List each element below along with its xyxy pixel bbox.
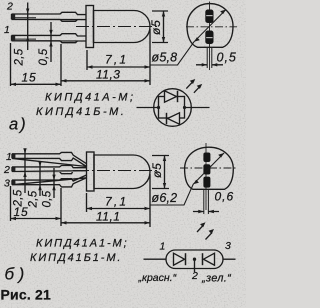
svg-text:ø5,8: ø5,8 bbox=[152, 51, 178, 65]
svg-text:0,5: 0,5 bbox=[38, 48, 50, 65]
diode D1 red (schematic b) bbox=[174, 253, 185, 265]
dimension 2,5 first vertical (b) bbox=[24, 149, 26, 193]
node left (schematic a) bbox=[157, 106, 160, 109]
svg-text:КИПД41Б-М.: КИПД41Б-М. bbox=[36, 106, 126, 118]
svg-text:15: 15 bbox=[22, 71, 37, 85]
svg-text:0,5: 0,5 bbox=[217, 51, 237, 65]
horizontal centerline (front view a) bbox=[186, 26, 237, 28]
svg-text:3: 3 bbox=[225, 240, 231, 252]
emission arrow 1 (schematic b) bbox=[197, 225, 204, 232]
diameter 6,2 leader line (b) bbox=[151, 153, 225, 205]
left lead wire (schematic b) bbox=[144, 258, 167, 260]
vertical centerline (front view b) bbox=[205, 143, 207, 210]
svg-text:Рис. 21: Рис. 21 bbox=[1, 287, 51, 303]
diameter 5,8 leader line (a) bbox=[151, 10, 227, 66]
dimension diameter 5 (a) bbox=[152, 11, 168, 43]
svg-text:11,1: 11,1 bbox=[96, 210, 120, 224]
lead 1 end-on (front view b) bbox=[203, 153, 210, 163]
svg-text:1: 1 bbox=[160, 240, 166, 252]
rectangle loop (schematic a) bbox=[159, 97, 185, 119]
front view outline (b) bbox=[185, 147, 234, 189]
middle lead wire down (schematic b) bbox=[194, 259, 196, 272]
emission arrow 2 (schematic a) bbox=[194, 86, 200, 93]
schematic symbol circle (a) bbox=[154, 89, 192, 127]
svg-text:„красн.“: „красн.“ bbox=[138, 272, 177, 284]
lead 1 (flat lead, side view a) bbox=[12, 34, 87, 43]
node right (schematic a) bbox=[183, 106, 186, 109]
dimension 7,1 (b) bbox=[87, 174, 151, 227]
dimension 0,5 vertical (b) bbox=[53, 168, 55, 198]
lead 3 (side view b) bbox=[12, 175, 87, 187]
horizontal centerline (front view b) bbox=[180, 167, 238, 169]
dimension 0,5 lead width (a) bbox=[196, 64, 223, 66]
emission arrow 2 (schematic b) bbox=[206, 233, 213, 240]
svg-text:2,5: 2,5 bbox=[28, 190, 40, 208]
dimension 15 (a) bbox=[11, 43, 62, 86]
svg-text:а): а) bbox=[9, 116, 28, 134]
svg-text:0,6: 0,6 bbox=[215, 190, 235, 204]
dimension diameter 5 (b) bbox=[152, 156, 169, 189]
dimension 2,5 second vertical (b) bbox=[39, 162, 41, 196]
svg-text:3: 3 bbox=[4, 178, 10, 190]
dimension 2,5 vertical line (lead spacing, a) bbox=[27, 3, 29, 51]
svg-text:б): б) bbox=[5, 265, 29, 284]
svg-text:2: 2 bbox=[191, 270, 198, 282]
svg-text:ø5: ø5 bbox=[149, 19, 163, 35]
right lead wire (schematic a) bbox=[185, 107, 210, 109]
lead 2 end-on (front view b) bbox=[203, 164, 210, 174]
body with dome (side view a) bbox=[94, 11, 151, 43]
svg-text:КИПД41А-М;: КИПД41А-М; bbox=[45, 92, 136, 104]
svg-text:7,1: 7,1 bbox=[105, 195, 128, 209]
svg-text:КИПД41Б1-М.: КИПД41Б1-М. bbox=[30, 252, 122, 264]
svg-text:7,1: 7,1 bbox=[105, 53, 128, 67]
dimension 11,3 (a) bbox=[61, 44, 150, 86]
left lead wire (schematic a) bbox=[137, 107, 159, 109]
common node (schematic b) bbox=[193, 258, 196, 261]
upper lead (end-on, front view a) bbox=[205, 10, 213, 24]
lead 3 end-on (front view b) bbox=[203, 177, 210, 188]
svg-text:2: 2 bbox=[3, 164, 10, 176]
centerline (side view a) bbox=[76, 26, 157, 28]
vertical centerline (front view a) bbox=[209, 2, 211, 71]
lead width lines below circle (a) bbox=[207, 48, 212, 69]
svg-text:2,5: 2,5 bbox=[14, 48, 26, 66]
svg-text:КИПД41А1-М;: КИПД41А1-М; bbox=[36, 238, 129, 250]
lead 2 (flat lead, side view a) bbox=[12, 12, 87, 21]
svg-text:1: 1 bbox=[4, 24, 10, 36]
emission arrow 1 (schematic a) bbox=[186, 82, 193, 89]
svg-text:ø5: ø5 bbox=[150, 162, 164, 178]
right lead wire (schematic b) bbox=[223, 258, 236, 260]
svg-text:11,3: 11,3 bbox=[96, 68, 120, 82]
dimension 7,1 (a): extension lines and dim line bbox=[87, 29, 150, 85]
lead 2 (side view b) bbox=[12, 166, 87, 174]
dimension 15 (b) bbox=[11, 186, 62, 221]
lead 1 (side view b) bbox=[12, 152, 87, 166]
dimension 0,6 lead width (b) bbox=[193, 211, 219, 213]
body with dome (side view b) bbox=[94, 155, 150, 189]
lower lead (end-on, front view a) bbox=[205, 31, 213, 45]
svg-text:2: 2 bbox=[6, 1, 13, 13]
flange (side view a) bbox=[86, 6, 94, 48]
front view outline (a) bbox=[187, 4, 233, 48]
stadium outline (schematic b) bbox=[166, 250, 223, 269]
svg-text:„зел.“: „зел.“ bbox=[201, 273, 232, 285]
svg-text:ø6,2: ø6,2 bbox=[152, 191, 178, 205]
svg-text:1: 1 bbox=[6, 151, 12, 163]
diode D2 green (schematic b) bbox=[204, 253, 215, 265]
flange (side view b) bbox=[87, 152, 95, 191]
svg-text:15: 15 bbox=[14, 205, 29, 219]
dimension 0,5 vertical line (lead thickness, a) bbox=[50, 22, 52, 62]
dimension 11,1 (b) bbox=[61, 188, 150, 226]
diode D1 top (schematic a) bbox=[165, 91, 177, 102]
diode D2 bottom (schematic a) bbox=[168, 113, 180, 124]
svg-text:0,5: 0,5 bbox=[42, 190, 54, 207]
centerline (side view b) bbox=[76, 170, 157, 172]
lead width lines below circle (b) bbox=[204, 189, 209, 214]
